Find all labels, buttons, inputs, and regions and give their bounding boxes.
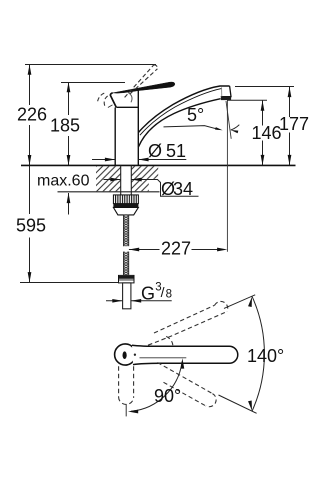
- 140-degree extension line bottom: [219, 395, 257, 413]
- svg-text:595: 595: [16, 216, 46, 236]
- svg-text:8: 8: [166, 289, 172, 301]
- braided supply hose (upper segment): [124, 215, 129, 246]
- svg-text:140°: 140°: [247, 346, 284, 366]
- 140-degree extension line top: [224, 295, 255, 309]
- handle pill: [132, 345, 238, 364]
- dashed handle ghost down-right: [158, 363, 217, 407]
- svg-text:227: 227: [161, 239, 191, 259]
- countertop deck line: [21, 164, 296, 166]
- 140-degree arc: [252, 296, 264, 411]
- G 3/8 callout: [106, 300, 123, 302]
- threaded shank: [120, 165, 122, 194]
- spout inner highlight line: [140, 89, 221, 136]
- dimension line 185 / max60: [67, 82, 71, 215]
- Ø51 callout: [92, 159, 115, 161]
- svg-text:146: 146: [252, 123, 282, 143]
- dimension 146: [227, 99, 267, 101]
- 5-degree right arc arrow: [231, 125, 240, 130]
- 185 extension line (lever top): [61, 82, 125, 84]
- dimension 227: [129, 249, 160, 251]
- svg-text:185: 185: [50, 116, 80, 136]
- spout end cap: [221, 86, 231, 97]
- hose end fitting: [119, 275, 135, 283]
- countertop hatching left block: [96, 166, 121, 191]
- lever handle (black wedge): [113, 82, 175, 93]
- mounting nut: [113, 195, 138, 215]
- cartridge head bottom line: [116, 106, 138, 108]
- handle interior centerline: [140, 357, 187, 359]
- svg-text:Ø: Ø: [148, 141, 162, 161]
- svg-text:G: G: [141, 283, 155, 303]
- dashed raised lever ghost: [98, 65, 158, 106]
- svg-text:226: 226: [17, 104, 47, 124]
- water stream vertical reference line: [226, 101, 228, 252]
- countertop hatching right block: [131, 166, 158, 191]
- head left edge: [110, 93, 116, 108]
- supply pipe: [123, 283, 131, 309]
- aerator: [221, 97, 231, 101]
- Ø34 callout: [104, 179, 121, 181]
- svg-text:5°: 5°: [187, 105, 204, 125]
- dashed handle ghost up: [148, 301, 228, 345]
- body circle: [115, 344, 136, 365]
- spout top edge: [138, 86, 229, 133]
- water stream 5-degree line: [226, 101, 231, 139]
- dimension 177: [235, 86, 294, 88]
- head interior detail: [128, 93, 132, 103]
- top reference line (226 raised-lever height): [25, 64, 156, 66]
- faucet base column: [114, 108, 116, 166]
- 5-degree leader with arrow: [164, 126, 219, 130]
- svg-text:90°: 90°: [154, 386, 181, 406]
- dimension line 226/595: [28, 65, 32, 283]
- svg-text:/: /: [161, 284, 165, 300]
- handle interior oval: [123, 351, 127, 359]
- head lower-left notch: [108, 105, 113, 108]
- countertop bottom line: [58, 191, 160, 193]
- svg-text:34: 34: [173, 179, 193, 199]
- spout underside: [138, 99, 220, 147]
- 90-degree arc: [131, 362, 182, 412]
- dashed handle ghost straight down: [119, 366, 134, 404]
- tick below downward ghost: [125, 404, 127, 417]
- 595 bottom reference line: [20, 282, 118, 284]
- svg-text:177: 177: [279, 114, 309, 134]
- braided supply hose (lower segment): [124, 252, 129, 276]
- svg-text:51: 51: [166, 141, 186, 161]
- svg-text:max.60: max.60: [37, 173, 90, 190]
- handle interior dot: [134, 354, 136, 356]
